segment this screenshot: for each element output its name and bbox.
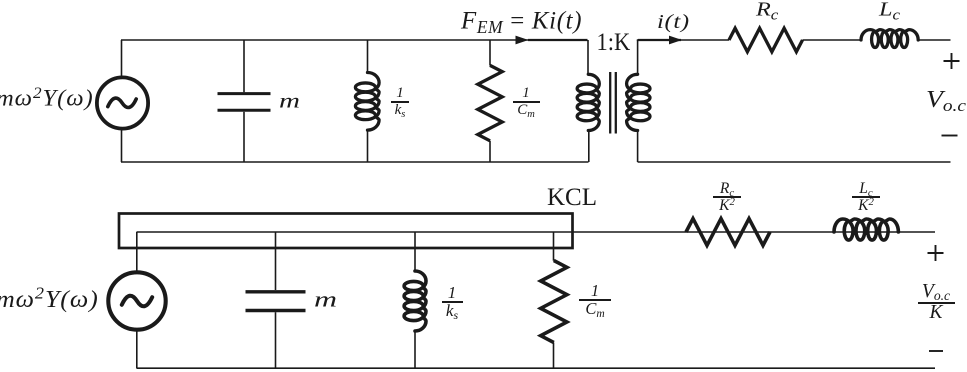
capacitor C(m) bottom-ckt bottom plate xyxy=(246,309,306,312)
label inductor Lc xyxy=(879,0,900,19)
resistor Rc/K^2 zigzag xyxy=(686,219,770,246)
transformer T1 secondary winding xyxy=(627,74,650,130)
label transformer ratio 1:K xyxy=(597,30,631,55)
label inductor value 1/ks (bottom) xyxy=(437,286,467,319)
wire source branch lower (bottom ckt) xyxy=(136,330,138,368)
KCL highlight box xyxy=(119,214,573,249)
capacitor C(m) top plate xyxy=(218,92,271,95)
label source value bottom: m omega^2 Y(omega) xyxy=(0,287,99,311)
transformer T1 primary stub lower xyxy=(588,130,590,163)
source V1 m*w^2*Y(w) xyxy=(97,77,148,128)
wire top-left horizontal (node a) xyxy=(121,39,588,41)
wire inductor 1/ks branch lower xyxy=(367,131,369,163)
source V1 sine symbol xyxy=(108,98,136,107)
wire resistor 1/Cm branch lower (bottom ckt) xyxy=(553,343,555,369)
resistor Rc zigzag xyxy=(729,28,803,52)
inductor Lc coil xyxy=(861,30,918,48)
label source value top: m omega^2 Y(omega) xyxy=(0,87,94,110)
inductor 1/ks coil xyxy=(355,73,379,131)
wire bottom-circuit bottom horizontal xyxy=(137,367,936,369)
label resistor value 1/Cm (bottom) xyxy=(578,284,612,317)
capacitor C(m) bottom plate xyxy=(218,109,271,112)
wire secondary bottom horizontal xyxy=(638,161,951,163)
wire resistor 1/Cm branch lower xyxy=(489,141,491,162)
wire segment arrow to transformer (thick) xyxy=(528,39,588,41)
transformer T1 primary winding xyxy=(577,74,599,130)
wire source branch upper (bottom ckt) xyxy=(136,232,138,272)
resistor 1/Cm zigzag xyxy=(478,65,502,140)
transformer T1 core line left xyxy=(609,72,611,134)
label KCL xyxy=(547,185,597,210)
wire inductor 1/ks branch lower (bottom ckt) xyxy=(414,331,416,368)
label current i(t) xyxy=(657,12,690,32)
wire resistor 1/Cm branch upper xyxy=(489,40,491,66)
label capacitor value m (top) xyxy=(279,91,300,111)
label capacitor value m (bottom) xyxy=(314,289,337,311)
wire bottom-circuit top horizontal (KCL node) xyxy=(137,231,936,233)
source V2 sine symbol xyxy=(122,296,152,307)
wire capacitor branch lower (bottom ckt) xyxy=(275,312,277,368)
label Voc (top port) xyxy=(926,88,966,112)
wire capacitor branch upper (bottom ckt) xyxy=(275,232,277,290)
label inductor value Lc/K^2 xyxy=(852,182,880,212)
label Voc/K (bottom port) xyxy=(916,284,956,322)
wire capacitor branch upper xyxy=(243,40,245,92)
wire left branch upper xyxy=(121,40,123,76)
label plus terminal top port xyxy=(944,53,960,69)
wire capacitor branch lower xyxy=(243,112,245,162)
label plus terminal bottom port xyxy=(928,245,944,261)
wire left branch lower xyxy=(121,130,123,162)
capacitor C(m) bottom-ckt top plate xyxy=(246,290,306,293)
wire between Rc and Lc xyxy=(803,39,862,41)
transformer T1 secondary stub upper xyxy=(637,40,639,75)
transformer T1 secondary stub lower xyxy=(637,130,639,163)
inductor 1/ks coil (bottom ckt) xyxy=(404,271,426,331)
label resistor value 1/Cm (top) xyxy=(511,87,541,117)
wire resistor 1/Cm branch upper (bottom ckt) xyxy=(553,232,555,261)
label F_EM = Ki(t) xyxy=(461,8,582,33)
inductor Lc/K^2 coil xyxy=(834,219,898,240)
label resistor value Rc/K^2 xyxy=(713,182,741,212)
resistor 1/Cm zigzag (bottom ckt) xyxy=(541,261,567,343)
label arrow i(t) on secondary wire xyxy=(669,36,682,45)
label minus terminal bottom port xyxy=(929,350,943,352)
label minus terminal top port xyxy=(942,135,958,137)
label inductor value 1/ks (top) xyxy=(385,87,415,117)
wire secondary right to port xyxy=(918,39,951,41)
wire inductor 1/ks branch upper xyxy=(367,40,369,73)
wire secondary top horizontal xyxy=(637,39,729,41)
transformer T1 primary stub upper xyxy=(587,40,589,75)
source V2 m*w^2*Y(w) xyxy=(108,272,165,329)
wire inductor 1/ks branch upper (bottom ckt) xyxy=(414,232,416,272)
wire segment transformer to i(t) arrow (thick) xyxy=(638,39,681,41)
wire bottom-left horizontal (node b) xyxy=(121,161,589,163)
label arrow F_EM on top wire xyxy=(516,36,529,45)
transformer T1 core line right xyxy=(615,72,617,134)
label resistor Rc xyxy=(756,0,778,19)
